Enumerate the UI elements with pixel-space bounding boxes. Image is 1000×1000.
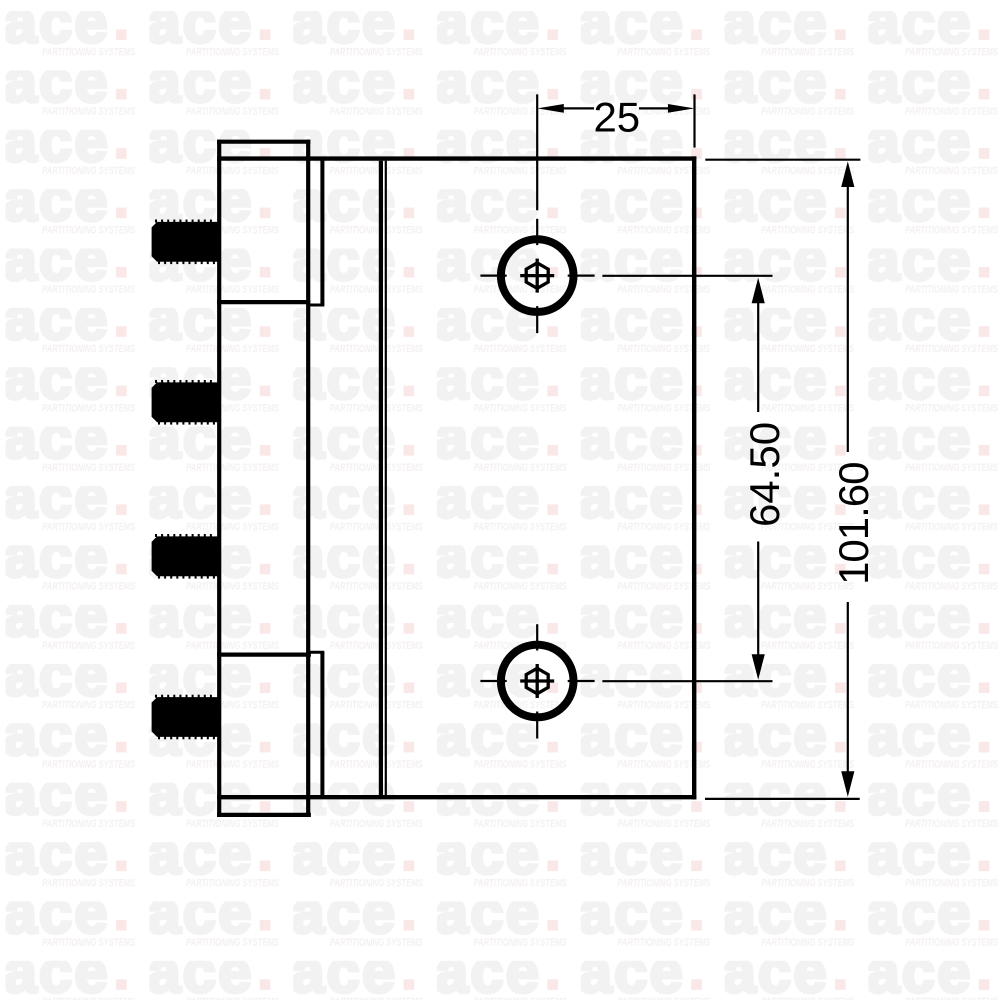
top hole counterbored hole ring <box>501 239 574 312</box>
body inner fold line thin <box>385 161 387 795</box>
back leaf edge bottom segment <box>320 652 324 799</box>
bottom hole counterbored hole ring <box>501 645 574 718</box>
body bottom edge <box>217 795 696 799</box>
dimension 101.60 line upper segment <box>847 184 849 452</box>
top hole centerline extension up to dimension 25 <box>536 94 538 210</box>
svg-text:64.50: 64.50 <box>741 422 788 527</box>
bottom hole center mark <box>480 624 594 738</box>
bottom hole hex socket <box>526 668 548 693</box>
bolt 1 (top grub screw) <box>152 220 220 265</box>
bolt 2 <box>152 380 220 425</box>
dimension 64.50 bottom arrowhead <box>752 654 765 680</box>
back leaf bottom connector <box>306 651 324 654</box>
dimension 64.50 line lower segment <box>757 542 759 656</box>
dimension 101.60 extension line bottom <box>705 798 860 800</box>
top hole center mark <box>480 219 594 333</box>
back leaf top connector <box>306 304 324 307</box>
top knuckle block top edge <box>217 140 310 144</box>
dimension 101.60 extension line top <box>705 159 860 161</box>
bottom hole centerline extension right <box>602 680 772 682</box>
dimension 101.60 line lower segment <box>847 602 849 773</box>
body right edge <box>692 156 696 799</box>
dimension 25 left arrowhead <box>537 104 563 113</box>
svg-text:25: 25 <box>593 93 640 140</box>
dimension 25 extension line right <box>693 94 695 147</box>
hinge left plate right edge <box>306 140 310 817</box>
dimension 25 line right segment <box>639 107 671 109</box>
dimension 101.60 bottom arrowhead <box>841 771 854 797</box>
dimension 25 right arrowhead <box>668 104 694 113</box>
hinge left plate left edge <box>217 140 221 817</box>
dimension 64.50 top arrowhead <box>752 278 765 304</box>
back leaf edge top segment <box>320 159 324 306</box>
top hole hex socket <box>526 263 548 288</box>
dimension 101.60 top arrowhead <box>841 161 854 187</box>
svg-text:101.60: 101.60 <box>830 462 877 584</box>
bolt 3 <box>152 534 220 579</box>
top hole centerline extension right <box>602 275 772 277</box>
dimension 25 line left segment <box>560 107 594 109</box>
body top edge <box>217 156 696 160</box>
bottom knuckle block top edge <box>217 652 311 656</box>
bolt 4 (bottom grub screw) <box>152 695 220 740</box>
top knuckle block bottom edge <box>217 300 310 304</box>
body inner fold line thick <box>379 161 383 795</box>
dimension 64.50 line upper segment <box>757 301 759 412</box>
bottom knuckle block bottom edge <box>217 813 311 817</box>
